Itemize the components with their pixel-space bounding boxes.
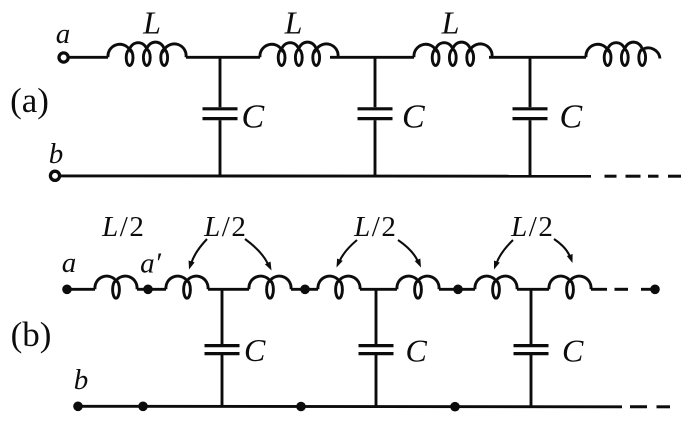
svg-text:L: L	[441, 5, 460, 41]
wire coil1 to a'	[137, 288, 148, 291]
arrow from label 4 to coil 7	[554, 239, 570, 258]
wire L2 to L3	[330, 56, 414, 59]
svg-text:a′: a′	[140, 248, 162, 280]
svg-text:C: C	[562, 333, 584, 369]
wire L3 to L4	[489, 56, 586, 59]
svg-text:b: b	[74, 364, 89, 396]
terminal b (filled dot)	[73, 402, 83, 412]
inductor L/2 (3)	[249, 276, 291, 289]
capacitor C (b, third)	[530, 289, 533, 344]
svg-text:C: C	[406, 333, 428, 369]
svg-text:L/2: L/2	[101, 211, 144, 243]
svg-text:L/2: L/2	[353, 211, 396, 243]
arrow from label 2 to coil 3	[245, 239, 268, 264]
svg-text:L: L	[142, 5, 161, 41]
svg-text:L/2: L/2	[203, 211, 246, 243]
wire coil5 to dot	[439, 288, 475, 291]
arrow from label 3 to coil 4	[339, 240, 357, 262]
wire coil4 to coil5	[360, 288, 397, 291]
wire coil3 to dot	[291, 288, 318, 291]
arrow from label 3 to coil 5	[398, 240, 418, 262]
svg-text:b: b	[49, 138, 64, 170]
node a' (filled dot)	[143, 285, 153, 295]
arrow from label 2 to coil 2	[191, 239, 207, 263]
arrow from label 4 to coil 6	[496, 240, 513, 264]
inductor L/2 (1)	[95, 276, 137, 289]
svg-text:(b): (b)	[11, 315, 52, 354]
inductor L/2 (4)	[318, 276, 360, 289]
wire a to coil1	[67, 288, 95, 291]
inductor L/2 (6)	[475, 276, 517, 289]
inductor L/2 (5)	[397, 276, 439, 289]
inductor L (fourth, unlabeled)	[586, 42, 660, 58]
bottom rail (a)	[61, 174, 592, 177]
terminal b (open circle)	[50, 171, 59, 180]
junction dot (bottom, 2)	[450, 402, 460, 412]
capacitor C (b, first)	[221, 289, 224, 344]
inductor L (first)	[108, 42, 186, 57]
dashed rail (b)	[630, 405, 647, 408]
svg-text:a: a	[62, 247, 77, 279]
dashed wire (b top)	[615, 288, 629, 291]
svg-text:C: C	[560, 99, 583, 136]
svg-text:C: C	[244, 332, 266, 368]
wire a to L1	[69, 56, 108, 59]
inductor L/2 (7)	[549, 276, 591, 289]
capacitor C (b, second)	[375, 289, 378, 344]
junction dot (top, 2)	[453, 285, 463, 295]
junction dot (top, 1)	[300, 285, 310, 295]
bottom rail (a) dashed continuation	[605, 175, 617, 178]
svg-text:a: a	[56, 18, 71, 50]
svg-text:C: C	[402, 99, 425, 136]
svg-text:L/2: L/2	[510, 211, 553, 243]
capacitor C (third)	[529, 57, 532, 107]
svg-text:C: C	[242, 99, 265, 136]
inductor L (third)	[414, 42, 492, 57]
wire coil7 to dashed end	[591, 288, 607, 291]
svg-text:(a): (a)	[10, 81, 49, 120]
bottom rail (b)	[78, 405, 622, 408]
junction dot (bottom, a')	[138, 402, 148, 412]
capacitor C (second)	[374, 57, 377, 107]
inductor L (second)	[260, 42, 338, 57]
end dot (top)	[650, 285, 660, 295]
inductor L/2 (2)	[166, 276, 208, 289]
capacitor C (first)	[219, 57, 222, 107]
wire coil2 to coil3	[208, 288, 249, 291]
terminal a (filled dot)	[62, 285, 72, 295]
junction dot (bottom, 1)	[296, 402, 306, 412]
wire coil6 to coil7	[517, 288, 549, 291]
svg-text:L: L	[284, 5, 303, 41]
wire stub to end dot	[641, 288, 655, 291]
wire a' to coil2	[148, 288, 166, 291]
terminal a (open circle)	[59, 53, 68, 62]
wire L1 to L2	[186, 56, 260, 59]
